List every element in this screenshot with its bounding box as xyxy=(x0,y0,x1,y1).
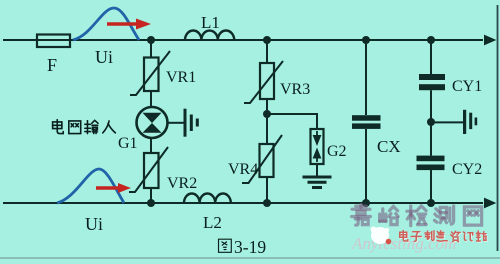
svg-text:CY2: CY2 xyxy=(452,161,482,178)
svg-text:VR1: VR1 xyxy=(166,69,196,86)
svg-text:G2: G2 xyxy=(327,143,347,160)
svg-text:Ui: Ui xyxy=(95,47,113,67)
svg-text:L2: L2 xyxy=(203,213,222,232)
svg-text:L1: L1 xyxy=(201,13,220,32)
svg-text:F: F xyxy=(47,55,57,75)
svg-text:G1: G1 xyxy=(118,135,138,152)
svg-text:Ui: Ui xyxy=(85,214,103,234)
svg-text:VR4: VR4 xyxy=(228,161,258,178)
svg-text:CY1: CY1 xyxy=(452,78,482,95)
svg-text:VR2: VR2 xyxy=(167,175,197,192)
svg-text:3-19: 3-19 xyxy=(234,237,266,257)
svg-text:CX: CX xyxy=(377,137,401,156)
svg-text:VR3: VR3 xyxy=(280,81,310,98)
